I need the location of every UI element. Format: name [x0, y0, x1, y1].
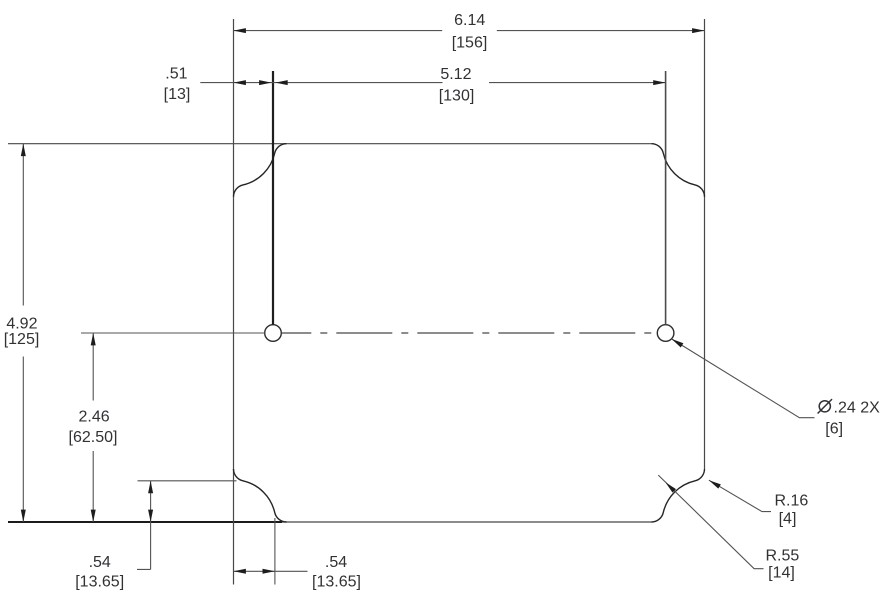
plate bottom edge: [282, 521, 652, 523]
svg-text:R.16: R.16: [775, 493, 809, 510]
leader for R.16: [709, 480, 771, 511]
bottom .54 right extension line: [274, 518, 276, 585]
svg-text:[125]: [125]: [4, 331, 40, 348]
dimension line 2.46: [92, 333, 94, 522]
svg-text:R.55: R.55: [766, 548, 800, 565]
left hole center extension line (thick): [272, 71, 274, 325]
svg-text:5.12: 5.12: [440, 66, 471, 83]
dimension line 6.14: [234, 30, 705, 32]
leader for hole diameter .24: [672, 339, 815, 418]
svg-text:.54: .54: [89, 554, 111, 571]
svg-text:[13.65]: [13.65]: [312, 574, 361, 591]
dimension line 4.92: [22, 144, 24, 522]
svg-text:[4]: [4]: [779, 511, 797, 528]
right hole extension line: [665, 71, 667, 325]
svg-text:[13]: [13]: [164, 86, 191, 103]
svg-text:[6]: [6]: [825, 421, 843, 438]
vertical .54 dimension line: [137, 481, 151, 570]
vertical .54 extension line: [138, 480, 237, 482]
right mounting hole: [657, 325, 674, 342]
svg-text:.51: .51: [165, 66, 187, 83]
plate left edge + 6.14 extension + bottom .54 left extension: [233, 19, 235, 585]
svg-text:[13.65]: [13.65]: [75, 574, 124, 591]
bottom .54 dimension line: [234, 570, 308, 572]
svg-text:[62.50]: [62.50]: [69, 429, 118, 446]
svg-text:2.46: 2.46: [79, 409, 110, 426]
bottom-left corner S-curve: [234, 469, 287, 522]
top-left corner S-curve R.55/R.16: [234, 144, 287, 197]
svg-text:6.14: 6.14: [454, 12, 485, 29]
leader for R.55: [658, 475, 763, 569]
svg-text:[14]: [14]: [768, 565, 795, 582]
svg-text:.54: .54: [325, 554, 347, 571]
plate right edge + 6.14 right extension: [704, 19, 706, 469]
bottom-right corner S-curve: [652, 469, 705, 522]
svg-text:[156]: [156]: [452, 34, 488, 51]
svg-text:.24 2X: .24 2X: [834, 400, 881, 417]
left mounting hole: [265, 325, 282, 342]
hole callout diameter symbol: [819, 401, 830, 412]
hole centerline solid part / 2.46 extension: [81, 332, 265, 334]
plate top edge + left extension of 4.92 dim: [8, 143, 652, 145]
svg-text:4.92: 4.92: [6, 316, 37, 333]
plate bottom edge thick extension segment: [8, 521, 282, 523]
top-right corner S-curve: [652, 144, 705, 197]
centerline dash-dot between holes: [281, 332, 657, 334]
dimension line .51 / 5.12 row: [200, 82, 665, 84]
svg-text:[130]: [130]: [439, 88, 475, 105]
